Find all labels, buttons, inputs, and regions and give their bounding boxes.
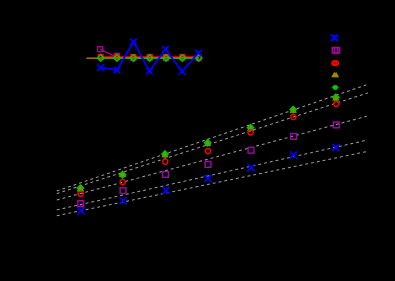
legend: olive triangle pair (331, 72, 339, 77)
inset: red open squares (98, 55, 201, 60)
main data: purple open squares (78, 122, 339, 206)
fit line L5 (olive series, dashed grey) (57, 152, 367, 216)
inset: purple line (100, 49, 199, 57)
legend: green filled diamond pair (332, 85, 339, 91)
legend: blue X pair (331, 35, 338, 40)
inset: blue zigzag line (101, 42, 199, 72)
fit line L4 (blue series, dashed grey) (57, 140, 366, 210)
inset: green line (101, 57, 199, 59)
main data: red open circles (78, 101, 339, 196)
inset: olive flat line (87, 57, 199, 59)
fit line L1 (green series, dashed grey) (57, 84, 369, 191)
inset: blue X markers (98, 39, 201, 74)
main data: blue X markers (78, 144, 339, 214)
inset: green open diamonds (97, 55, 202, 62)
legend: red open circle pair (332, 61, 338, 65)
inset: purple open squares (98, 47, 202, 61)
inset: red line (101, 56, 199, 58)
legend: purple open square pair (332, 48, 339, 53)
main data: green open diamonds (77, 94, 338, 191)
main data: olive triangles (behind green diamonds) (77, 95, 340, 192)
fit line L2 (red series, dashed grey) (57, 93, 368, 194)
fit line L3 (purple series, dashed grey) (57, 116, 367, 200)
